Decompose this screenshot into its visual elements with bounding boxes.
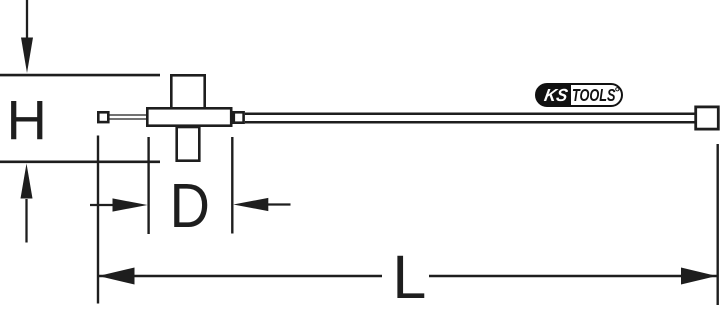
D left arrowhead bbox=[113, 198, 148, 211]
tool main body bbox=[147, 108, 231, 125]
tool right collar bbox=[234, 112, 244, 122]
D left extension line bbox=[147, 137, 149, 234]
D right arrowhead bbox=[233, 198, 268, 211]
H top arrowhead bbox=[21, 38, 33, 74]
tool top head block bbox=[171, 75, 204, 108]
H top arrow shaft bbox=[26, 0, 28, 39]
left thin rod top line bbox=[108, 114, 147, 116]
left thin rod bottom line bbox=[108, 118, 147, 120]
H bottom arrowhead bbox=[21, 164, 33, 199]
tool bottom square drive block bbox=[177, 127, 200, 161]
L right extension line bbox=[717, 144, 719, 305]
L left extension line bbox=[97, 136, 99, 304]
D left arrow shaft bbox=[90, 204, 114, 206]
label D bbox=[170, 172, 210, 240]
tool tip square bbox=[98, 112, 108, 122]
svg-text:H: H bbox=[7, 88, 47, 151]
logo KS text bbox=[543, 85, 570, 105]
svg-text:L: L bbox=[392, 243, 426, 309]
KS Tools logo capsule bbox=[536, 84, 622, 106]
H bottom extension line bbox=[0, 161, 160, 164]
svg-text:D: D bbox=[170, 172, 210, 240]
L right arrowhead bbox=[681, 268, 717, 285]
D right arrow shaft bbox=[267, 203, 291, 205]
logo black left half bbox=[536, 84, 571, 106]
long handle rod top line bbox=[245, 112, 697, 115]
L dimension line right segment bbox=[429, 275, 717, 277]
long handle rod bottom line bbox=[245, 121, 697, 124]
registered mark bbox=[616, 88, 619, 91]
H top extension line bbox=[0, 74, 160, 77]
D right extension line bbox=[231, 137, 233, 234]
L dimension line left segment bbox=[98, 275, 382, 277]
L left arrowhead bbox=[99, 268, 135, 285]
svg-text:KS: KS bbox=[543, 85, 570, 105]
end cap bbox=[696, 107, 719, 129]
svg-text:TOOLS: TOOLS bbox=[572, 85, 616, 105]
H bottom arrow shaft bbox=[25, 199, 27, 243]
